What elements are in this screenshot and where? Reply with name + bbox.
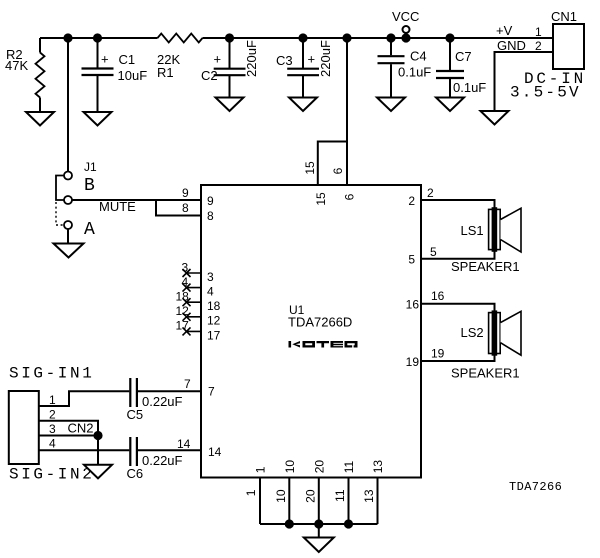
svg-text:17: 17 — [207, 329, 221, 343]
svg-text:1: 1 — [244, 489, 258, 496]
svg-text:+: + — [101, 52, 109, 67]
node junction bus pin20 — [315, 520, 322, 527]
wire CN1 pin2 GND — [495, 52, 554, 111]
svg-text:1: 1 — [49, 393, 56, 407]
speaker LS1 — [461, 207, 522, 252]
wire top VCC rail right segment — [203, 37, 554, 39]
svg-text:TDA7266D: TDA7266D — [288, 315, 352, 330]
svg-text:2: 2 — [49, 408, 56, 422]
svg-text:10: 10 — [283, 460, 297, 474]
value label 22K R1 — [157, 52, 180, 80]
svg-text:0.22uF: 0.22uF — [142, 453, 183, 468]
ground (C2) — [216, 98, 244, 112]
resistor R1 — [158, 34, 203, 43]
connector SIG-IN (CN2) body — [9, 391, 39, 464]
pin 4 no-connect stub — [182, 275, 215, 299]
svg-text:5: 5 — [408, 253, 415, 267]
capacitor C3 — [276, 38, 333, 97]
wire rail to J1 — [67, 38, 69, 171]
svg-text:8: 8 — [207, 209, 214, 223]
svg-text:15: 15 — [314, 192, 328, 206]
svg-text:19: 19 — [406, 355, 420, 369]
svg-text:4: 4 — [207, 285, 214, 299]
svg-text:4: 4 — [49, 437, 56, 451]
pin 18 no-connect stub — [176, 290, 221, 314]
svg-text:VCC: VCC — [392, 9, 419, 24]
ground (bottom bus) — [304, 538, 334, 553]
capacitor C6 — [127, 437, 202, 481]
svg-text:14: 14 — [208, 445, 222, 459]
svg-text:SIG-IN1: SIG-IN1 — [9, 365, 94, 383]
svg-text:R1: R1 — [157, 65, 174, 80]
svg-text:13: 13 — [362, 489, 376, 503]
node junction at C3 — [299, 34, 306, 41]
svg-text:3: 3 — [207, 270, 214, 284]
node junction bus pin10 — [286, 520, 293, 527]
wire MUTE to pin 9 — [72, 199, 201, 201]
svg-text:C4: C4 — [410, 49, 427, 64]
wire pin 6 riser — [346, 38, 348, 185]
svg-text:LS2: LS2 — [461, 325, 484, 340]
svg-text:4: 4 — [182, 275, 189, 289]
svg-text:220uF: 220uF — [244, 40, 259, 77]
wire ground stem — [318, 524, 320, 537]
ground (C1) — [84, 112, 112, 126]
ground (J1) — [54, 244, 84, 258]
svg-text:1: 1 — [254, 466, 268, 473]
capacitor C1 — [82, 38, 148, 112]
svg-text:3: 3 — [182, 261, 189, 275]
capacitor C5 — [127, 378, 202, 422]
svg-text:CN2: CN2 — [68, 421, 94, 436]
svg-text:6: 6 — [343, 193, 357, 200]
wire pin 20 bottom — [318, 478, 320, 525]
wire pin 1 bottom — [259, 478, 261, 525]
speaker LS2 — [461, 310, 522, 355]
capacitor C2 — [201, 38, 259, 97]
wire branch to pin 8 — [156, 200, 201, 216]
svg-text:MUTE: MUTE — [99, 199, 136, 214]
wire pin 13 bottom — [377, 478, 379, 525]
svg-text:SIG-IN2: SIG-IN2 — [9, 466, 94, 484]
svg-text:6: 6 — [331, 167, 345, 174]
svg-text:+V: +V — [496, 23, 513, 38]
svg-text:20: 20 — [303, 489, 317, 503]
wire bottom ground bus — [260, 523, 378, 525]
svg-text:5: 5 — [430, 245, 437, 259]
node junction at C1 — [94, 34, 101, 41]
svg-text:8: 8 — [182, 201, 189, 215]
wire pin 2 to LS1 — [421, 200, 495, 209]
svg-text:C7: C7 — [455, 49, 472, 64]
node junction bus pin11 — [345, 520, 352, 527]
CN2 pin 3 wire — [39, 435, 98, 437]
svg-text:47K: 47K — [5, 58, 28, 73]
ground (C7) — [436, 98, 464, 112]
pin 17 no-connect stub — [176, 319, 221, 343]
svg-text:15: 15 — [303, 161, 317, 175]
op-amp U1 IC body — [201, 185, 421, 478]
wire top VCC rail left segment — [40, 37, 158, 39]
pin 12 no-connect stub — [176, 304, 221, 328]
svg-text:10uF: 10uF — [118, 68, 148, 83]
ground (R2) — [26, 112, 54, 126]
logo KOTEQ — [289, 341, 358, 348]
ground (C4) — [377, 98, 405, 112]
node junction at C4 — [387, 34, 394, 41]
CN2 pin 2 wire — [39, 421, 98, 436]
svg-text:13: 13 — [371, 460, 385, 474]
wire pin 5 to LS1 — [421, 251, 495, 259]
svg-text:1: 1 — [535, 25, 542, 39]
svg-text:220uF: 220uF — [318, 40, 333, 77]
wire pin 15 riser — [318, 142, 347, 186]
svg-text:16: 16 — [406, 298, 420, 312]
capacitor C7 — [436, 38, 486, 97]
svg-text:2: 2 — [408, 194, 415, 208]
svg-text:C6: C6 — [127, 466, 144, 481]
svg-text:9: 9 — [182, 186, 189, 200]
wire CN2 ground drop — [97, 436, 99, 465]
CN2 pin 4 wire — [39, 449, 130, 451]
svg-text:+: + — [308, 52, 316, 67]
node junction at C2 — [226, 34, 233, 41]
svg-text:12: 12 — [176, 304, 190, 318]
svg-text:3.5-5V: 3.5-5V — [510, 84, 581, 102]
svg-text:7: 7 — [208, 385, 215, 399]
svg-text:19: 19 — [431, 347, 445, 361]
svg-text:18: 18 — [176, 290, 190, 304]
svg-text:3: 3 — [49, 422, 56, 436]
svg-text:11: 11 — [333, 489, 347, 502]
svg-text:12: 12 — [207, 314, 221, 328]
node junction at C7 — [446, 34, 453, 41]
svg-text:C5: C5 — [127, 407, 144, 422]
ground (CN1) — [481, 111, 509, 125]
ground (C3) — [289, 98, 317, 112]
svg-text:0.22uF: 0.22uF — [142, 394, 183, 409]
svg-text:10: 10 — [274, 489, 288, 503]
CN2 pin 1 wire — [39, 391, 130, 406]
svg-text:2: 2 — [535, 39, 542, 53]
svg-text:18: 18 — [207, 299, 221, 313]
svg-text:TDA7266: TDA7266 — [509, 480, 562, 494]
svg-text:0.1uF: 0.1uF — [398, 65, 431, 80]
capacitor C4 — [378, 38, 432, 97]
svg-text:20: 20 — [312, 460, 326, 474]
svg-text:7: 7 — [184, 377, 191, 391]
svg-text:C2: C2 — [201, 68, 218, 83]
wire pin 19 to LS2 — [421, 354, 495, 361]
svg-text:SPEAKER1: SPEAKER1 — [451, 366, 520, 381]
wire pin 16 to LS2 — [421, 304, 495, 312]
power VCC — [392, 9, 419, 42]
node junction CN2 ground — [94, 432, 101, 439]
svg-text:9: 9 — [207, 194, 214, 208]
ground (CN2) — [84, 465, 112, 479]
jumper J1 — [56, 160, 97, 243]
svg-text:16: 16 — [431, 289, 445, 303]
svg-text:C3: C3 — [276, 53, 293, 68]
svg-text:GND: GND — [497, 38, 526, 53]
svg-text:LS1: LS1 — [461, 223, 484, 238]
wire pin 11 bottom — [348, 478, 350, 525]
node junction at pin6 riser — [343, 34, 350, 41]
resistor R2 — [5, 38, 45, 112]
svg-text:A: A — [84, 220, 95, 240]
connector CN1 — [535, 9, 584, 69]
svg-text:B: B — [84, 176, 95, 196]
svg-text:14: 14 — [177, 437, 191, 451]
svg-text:2: 2 — [427, 186, 434, 200]
node junction at J1 branch — [64, 34, 71, 41]
pin 3 no-connect stub — [182, 261, 215, 285]
svg-text:11: 11 — [342, 461, 356, 474]
svg-text:+: + — [214, 52, 222, 67]
svg-text:CN1: CN1 — [551, 9, 577, 24]
svg-text:17: 17 — [176, 319, 190, 333]
svg-text:C1: C1 — [119, 52, 136, 67]
svg-text:0.1uF: 0.1uF — [453, 80, 486, 95]
wire pin 10 bottom — [288, 478, 290, 525]
svg-text:J1: J1 — [84, 160, 97, 174]
svg-text:SPEAKER1: SPEAKER1 — [451, 259, 520, 274]
